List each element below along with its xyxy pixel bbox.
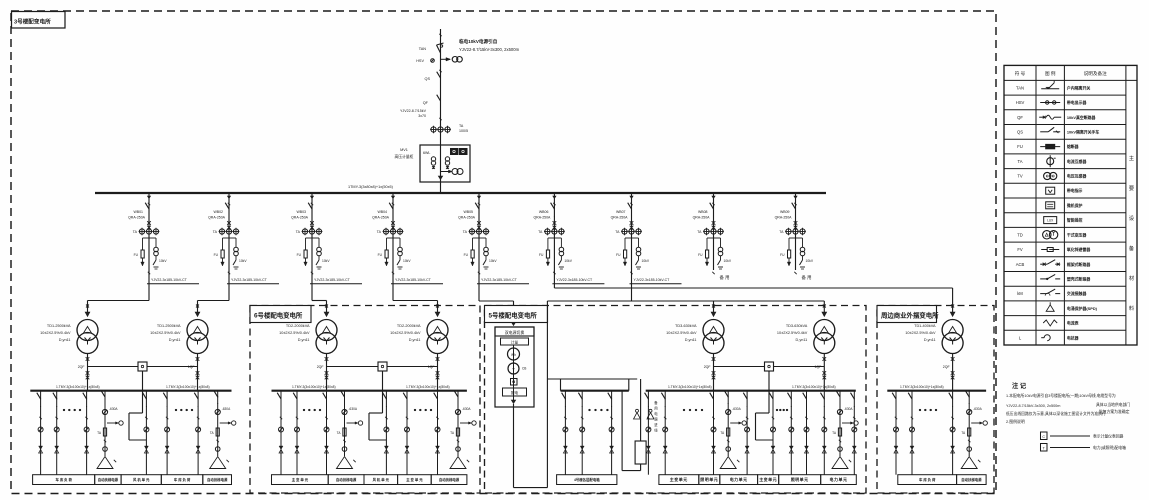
svg-text:1.TMY-3(3x100x10)+1x(80x8): 1.TMY-3(3x100x10)+1x(80x8) [792, 385, 836, 389]
svg-text:Wh: Wh [511, 353, 516, 357]
svg-text:1.TMY-3(3x100x10)+1x(80x8): 1.TMY-3(3x100x10)+1x(80x8) [668, 385, 712, 389]
svg-text:电力单元: 电力单元 [730, 476, 748, 482]
svg-text:-630A: -630A [109, 407, 118, 411]
svg-text:电力单元: 电力单元 [830, 476, 848, 482]
svg-text:C: C [1042, 435, 1045, 439]
svg-text:主变单元: 主变单元 [670, 476, 688, 482]
svg-text:TA: TA [459, 124, 464, 128]
svg-text:周边商业外摆变电所: 周边商业外摆变电所 [881, 311, 939, 320]
svg-text:3x70: 3x70 [418, 114, 426, 118]
svg-text:框架式断路器: 框架式断路器 [1066, 262, 1091, 267]
svg-text:FU: FU [297, 253, 302, 257]
svg-text:设: 设 [1129, 214, 1134, 222]
svg-text:MV1: MV1 [400, 148, 408, 152]
svg-text:4号楼各层配电箱: 4号楼各层配电箱 [574, 477, 600, 482]
svg-text:照明单元: 照明单元 [791, 476, 809, 482]
svg-text:D,yn11: D,yn11 [685, 338, 697, 342]
svg-text:D,yn11: D,yn11 [298, 338, 310, 342]
svg-text:10±2X2.5%/0.4kV: 10±2X2.5%/0.4kV [666, 331, 697, 335]
svg-text:YJV22-8.7/15kV: YJV22-8.7/15kV [400, 109, 427, 113]
svg-text:QRA-250A: QRA-250A [208, 216, 226, 220]
svg-text:带电指示: 带电指示 [1067, 188, 1083, 193]
svg-text:YJV22-3x185-10kV-CT: YJV22-3x185-10kV-CT [395, 278, 432, 282]
svg-text:10kV: 10kV [489, 259, 497, 263]
svg-text:带电显示器: 带电显示器 [1067, 100, 1088, 105]
svg-text:D,yn11: D,yn11 [796, 338, 808, 342]
svg-text:FU: FU [616, 253, 621, 257]
svg-text:5号楼配电变电所: 5号楼配电变电所 [489, 311, 538, 320]
svg-text:材: 材 [1129, 274, 1134, 282]
svg-text:10kV: 10kV [239, 259, 247, 263]
svg-text:TD2-2000kVA: TD2-2000kVA [286, 324, 310, 328]
svg-text:HSV: HSV [416, 59, 424, 63]
svg-text:图 例: 图 例 [1045, 70, 1056, 77]
svg-text:10±2X2.5%/0.4kV: 10±2X2.5%/0.4kV [777, 331, 808, 335]
svg-text:WB05: WB05 [463, 210, 473, 214]
svg-text:备: 备 [1129, 244, 1135, 252]
svg-text:2QF: 2QF [704, 365, 711, 369]
svg-text:TD3-630kVA: TD3-630kVA [786, 324, 808, 328]
svg-text:1.TMY-3(3x100x10)+1x(80x8): 1.TMY-3(3x100x10)+1x(80x8) [166, 385, 210, 389]
svg-text:1.TMY-3(3x100x10)+1x(80x8): 1.TMY-3(3x100x10)+1x(80x8) [900, 385, 944, 389]
svg-text:电压互感器: 电压互感器 [1067, 174, 1088, 179]
svg-text:1.TMY-3(3x100x10)+1x(80x8): 1.TMY-3(3x100x10)+1x(80x8) [292, 385, 336, 389]
svg-text:FU: FU [780, 253, 785, 257]
svg-text:2QF: 2QF [943, 365, 950, 369]
svg-text:QRA-250A: QRA-250A [533, 216, 551, 220]
svg-text:TD3-630kVA: TD3-630kVA [675, 324, 697, 328]
svg-text:车 库 负 荷: 车 库 负 荷 [174, 477, 191, 482]
svg-text:WB09: WB09 [780, 210, 790, 214]
svg-text:10±2X2.5%/0.4kV: 10±2X2.5%/0.4kV [40, 331, 71, 335]
svg-text:1TMY-3(3x80x8)+1x(50x5): 1TMY-3(3x80x8)+1x(50x5) [348, 185, 394, 189]
svg-text:TA: TA [296, 230, 301, 234]
svg-text:风 机 单 元: 风 机 单 元 [373, 477, 390, 482]
svg-text:车 库 负 荷: 车 库 负 荷 [919, 477, 936, 482]
svg-text:表示计量仪表回路: 表示计量仪表回路 [1093, 434, 1124, 439]
svg-text:照明单元: 照明单元 [700, 476, 718, 482]
svg-text:TA: TA [538, 230, 543, 234]
svg-text:QF: QF [1017, 115, 1023, 120]
svg-text:微机保护: 微机保护 [1066, 203, 1083, 208]
svg-text:氧化锌避雷器: 氧化锌避雷器 [1066, 247, 1091, 252]
svg-text:户内隔离开关: 户内隔离开关 [1066, 85, 1090, 90]
svg-text:-630A: -630A [462, 407, 471, 411]
svg-text:WB06: WB06 [539, 210, 549, 214]
svg-text:2QF: 2QF [317, 365, 324, 369]
svg-text:TV: TV [1017, 174, 1023, 179]
svg-text:TD1-2500kVA: TD1-2500kVA [47, 324, 71, 328]
svg-text:TAN: TAN [419, 47, 427, 51]
svg-text:-630A: -630A [973, 407, 982, 411]
svg-text:10kV: 10kV [564, 259, 572, 263]
svg-text:QRA-250A: QRA-250A [775, 216, 793, 220]
svg-text:主 变 单 元: 主 变 单 元 [406, 477, 423, 482]
svg-text:自动扶梯电源: 自动扶梯电源 [98, 477, 119, 482]
svg-text:电涌保护器(SPD): 电涌保护器(SPD) [1067, 306, 1098, 311]
svg-text:10kV: 10kV [322, 259, 330, 263]
svg-text:10±2X2.5%/0.4kV: 10±2X2.5%/0.4kV [150, 331, 181, 335]
svg-text:TA: TA [463, 230, 468, 234]
svg-text:TD1-2500kVA: TD1-2500kVA [157, 324, 181, 328]
svg-text:FU: FU [539, 253, 544, 257]
svg-text:YJV22-3x185-10kV-CT: YJV22-3x185-10kV-CT [151, 278, 188, 282]
svg-text:YJV22-3x185-10kV-CT: YJV22-3x185-10kV-CT [634, 278, 671, 282]
svg-text:自动扶梯电源: 自动扶梯电源 [961, 477, 982, 482]
svg-text:FU: FU [698, 253, 703, 257]
svg-text:QRA-250A: QRA-250A [372, 216, 390, 220]
svg-text:FV: FV [1017, 247, 1023, 252]
svg-text:WB08: WB08 [698, 210, 708, 214]
svg-text:D,yn11: D,yn11 [169, 338, 181, 342]
svg-text:FU: FU [1017, 144, 1023, 149]
svg-text:QRA-250A: QRA-250A [291, 216, 309, 220]
svg-text:说明及备注: 说明及备注 [1084, 70, 1107, 77]
svg-text:FU: FU [378, 253, 383, 257]
svg-text:TA: TA [1017, 159, 1022, 164]
svg-text:10±2X2.5%/0.4kV: 10±2X2.5%/0.4kV [390, 331, 421, 335]
svg-text:干式变压器: 干式变压器 [1067, 232, 1088, 237]
svg-text:主变单元: 主变单元 [759, 476, 777, 482]
svg-text:3号楼配变电所: 3号楼配变电所 [14, 18, 51, 26]
svg-text:临电10kV电源引自: 临电10kV电源引自 [459, 38, 498, 45]
svg-text:QF: QF [423, 101, 429, 105]
svg-text:10kV: 10kV [159, 259, 167, 263]
svg-text:低压出线回路仅为示意,具体以深化施工图设计文件为准执行: 低压出线回路仅为示意,具体以深化施工图设计文件为准执行 [1006, 411, 1106, 416]
svg-text:电抗器: 电抗器 [1067, 335, 1080, 340]
svg-text:TD: TD [1017, 232, 1023, 237]
svg-text:10kV: 10kV [403, 259, 411, 263]
svg-text:自动扶梯电源: 自动扶梯电源 [439, 477, 460, 482]
svg-text:TA: TA [615, 230, 620, 234]
svg-text:YJV22-8.7/15kV-3x300, 2x500m: YJV22-8.7/15kV-3x300, 2x500m [459, 47, 520, 52]
svg-text:WB01: WB01 [133, 210, 143, 214]
svg-text:高压计量柜: 高压计量柜 [395, 154, 414, 159]
svg-text:符 号: 符 号 [1015, 70, 1026, 77]
svg-text:QRA-250A: QRA-250A [458, 216, 476, 220]
svg-text:自动扶梯电源: 自动扶梯电源 [207, 477, 228, 482]
svg-text:10kV真空断路器: 10kV真空断路器 [1067, 115, 1097, 120]
svg-text:TA: TA [779, 230, 784, 234]
svg-text:TA: TA [133, 230, 138, 234]
svg-text:用: 用 [654, 407, 657, 411]
svg-text:主 变 单 元: 主 变 单 元 [292, 477, 309, 482]
svg-text:QRA-250A: QRA-250A [128, 216, 146, 220]
svg-text:10kV: 10kV [642, 259, 650, 263]
svg-text:-630A: -630A [844, 407, 853, 411]
svg-text:10kV: 10kV [724, 259, 732, 263]
svg-text:2.图例说明: 2.图例说明 [1006, 419, 1025, 424]
svg-text:风 机 单 元: 风 机 单 元 [133, 477, 150, 482]
svg-text:LUX: LUX [1047, 219, 1054, 223]
svg-text:10±2X2.5%/0.4kV: 10±2X2.5%/0.4kV [905, 331, 936, 335]
svg-text:YJV22-3x185-10kV-CT: YJV22-3x185-10kV-CT [314, 278, 351, 282]
svg-text:FU: FU [214, 253, 219, 257]
svg-text:WB03: WB03 [296, 210, 306, 214]
svg-text:CB: CB [522, 367, 526, 371]
svg-text:TD1-400kVA: TD1-400kVA [914, 324, 936, 328]
svg-text:电力(或照明)配电箱: 电力(或照明)配电箱 [1093, 445, 1126, 450]
svg-text:1.本配电所10kV电源引自3号楼配电所(一期)10kV母线: 1.本配电所10kV电源引自3号楼配电所(一期)10kV母线,电缆型号为 [1006, 393, 1116, 398]
svg-text:备 用: 备 用 [802, 274, 812, 281]
svg-text:QS: QS [1017, 129, 1023, 134]
svg-text:电流互感器: 电流互感器 [1067, 159, 1088, 164]
svg-text:QRA-250A: QRA-250A [693, 216, 711, 220]
svg-text:kM: kM [1017, 291, 1023, 296]
svg-text:WB04: WB04 [377, 210, 387, 214]
svg-text:智能操控: 智能操控 [1066, 218, 1083, 223]
svg-text:TD2-2000kVA: TD2-2000kVA [397, 324, 421, 328]
svg-text:6WL: 6WL [423, 151, 430, 155]
svg-text:HSV: HSV [1016, 100, 1025, 105]
svg-text:要: 要 [1129, 185, 1134, 192]
svg-text:ACB: ACB [1016, 262, 1025, 267]
svg-text:双电源切换: 双电源切换 [505, 330, 525, 335]
svg-text:YJV22-3x185-10kV-CT: YJV22-3x185-10kV-CT [556, 278, 593, 282]
svg-text:10±2X2.5%/0.4kV: 10±2X2.5%/0.4kV [279, 331, 310, 335]
svg-text:D,yn11: D,yn11 [59, 338, 71, 342]
svg-text:计量: 计量 [511, 340, 519, 345]
svg-text:主: 主 [1129, 154, 1134, 162]
svg-text:TAN: TAN [1016, 85, 1024, 90]
svg-text:熔断器: 熔断器 [1067, 144, 1080, 149]
svg-text:配电: 配电 [511, 390, 519, 395]
svg-text:塑壳式断路器: 塑壳式断路器 [1067, 277, 1091, 282]
svg-text:QRA-250A: QRA-250A [611, 216, 629, 220]
svg-text:交流接触器: 交流接触器 [1067, 291, 1088, 296]
svg-text:电流表: 电流表 [1067, 321, 1079, 326]
svg-text:具体以当地供电部门: 具体以当地供电部门 [1096, 402, 1130, 407]
svg-text:自动扶梯电源: 自动扶梯电源 [336, 477, 357, 482]
svg-text:100/5: 100/5 [459, 129, 468, 133]
svg-text:1.TMY-3(3x100x10)+1x(80x8): 1.TMY-3(3x100x10)+1x(80x8) [56, 385, 100, 389]
svg-text:YJV22-8.7/15kV-3x300, 2x500m: YJV22-8.7/15kV-3x300, 2x500m [1006, 404, 1060, 408]
svg-text:1.TMY-3(3x100x10)+1x(80x8): 1.TMY-3(3x100x10)+1x(80x8) [406, 385, 450, 389]
svg-text:10kV: 10kV [806, 259, 814, 263]
svg-text:YJV22-3x185-10kV-CT: YJV22-3x185-10kV-CT [481, 278, 518, 282]
svg-text:QS: QS [425, 77, 431, 81]
svg-text:FU: FU [464, 253, 469, 257]
svg-text:-630A: -630A [349, 407, 358, 411]
svg-text:D,yn11: D,yn11 [409, 338, 421, 342]
svg-text:备 用: 备 用 [720, 274, 730, 281]
svg-text:车 库 负 荷: 车 库 负 荷 [56, 477, 73, 482]
svg-text:10kV隔离开关手车: 10kV隔离开关手车 [1067, 129, 1100, 134]
svg-text:-630A: -630A [222, 407, 231, 411]
svg-text:注 记: 注 记 [1012, 382, 1027, 390]
svg-text:WB07: WB07 [616, 210, 626, 214]
svg-text:2QF: 2QF [78, 365, 85, 369]
svg-text:料: 料 [1129, 304, 1134, 312]
svg-text:WB02: WB02 [213, 210, 223, 214]
svg-text:-630A: -630A [732, 407, 741, 411]
svg-text:TA: TA [377, 230, 382, 234]
svg-text:D,yn11: D,yn11 [924, 338, 936, 342]
svg-text:YJV22-3x185-10kV-CT: YJV22-3x185-10kV-CT [231, 278, 268, 282]
svg-text:TA: TA [697, 230, 702, 234]
svg-text:6号楼配电变电所: 6号楼配电变电所 [254, 311, 303, 320]
svg-text:TA: TA [213, 230, 218, 234]
svg-text:FU: FU [134, 253, 139, 257]
